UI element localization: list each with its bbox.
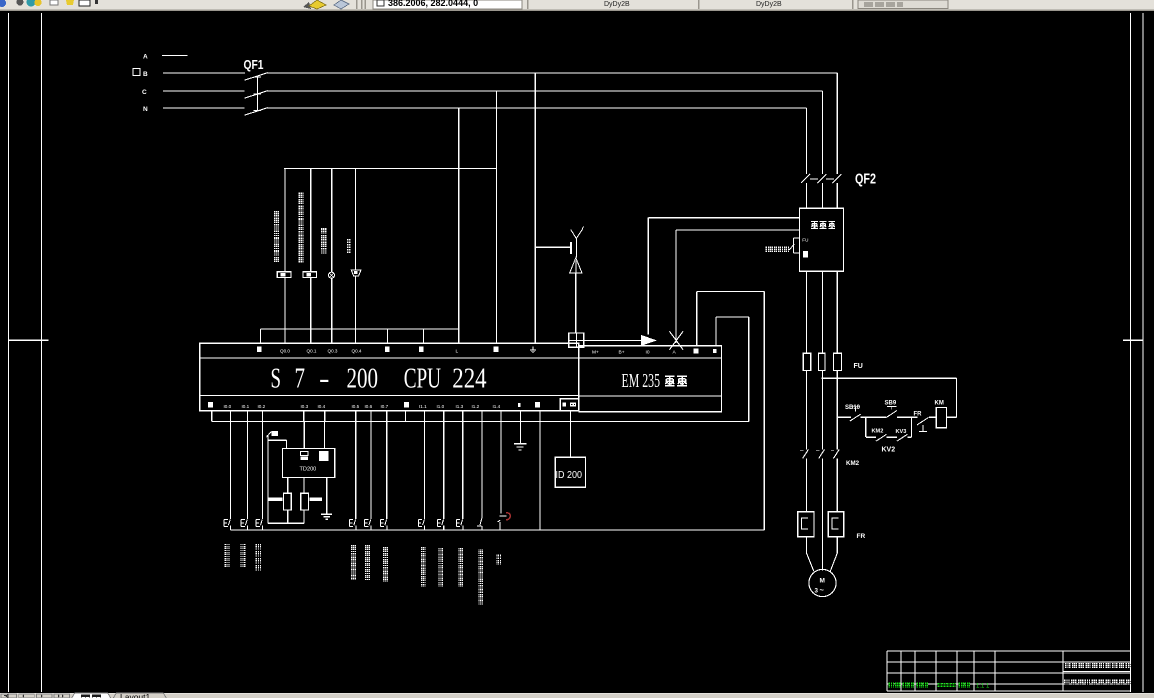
contactor KM2 pole <box>833 450 839 459</box>
wire terminal stub <box>370 411 372 422</box>
wire input 7 <box>424 421 426 519</box>
wire terminal stub <box>500 411 502 422</box>
wire output branch 4 <box>355 169 357 271</box>
switch contact 1 <box>223 519 225 526</box>
wire input 5 <box>370 421 372 519</box>
wire mid common bus <box>212 420 749 422</box>
label output 1 <box>274 211 280 217</box>
wire terminal stub <box>246 411 248 422</box>
thermal relay FR element2 <box>828 512 844 537</box>
ground symbol <box>514 443 527 445</box>
wire stub to PLC top <box>422 329 424 343</box>
wire aux branch <box>865 417 867 437</box>
svg-text:I0.4: I0.4 <box>318 404 326 409</box>
svg-text:ID 200: ID 200 <box>556 469 583 481</box>
svg-text:SB10: SB10 <box>845 405 861 411</box>
svg-text:I0.1: I0.1 <box>242 404 250 409</box>
inverter label <box>811 222 818 229</box>
label input 6 <box>383 547 388 552</box>
sheet frame left outer border <box>8 13 10 692</box>
thermal relay FR element1 <box>798 512 814 537</box>
svg-text:Q0.1: Q0.1 <box>307 349 317 354</box>
indicator lamp symbol <box>329 272 335 278</box>
wire input 3 <box>262 421 264 519</box>
svg-text:I1.1: I1.1 <box>419 404 427 409</box>
wire pole3 down <box>836 458 838 511</box>
switch contact 8 <box>436 519 438 526</box>
svg-text:Q0.0: Q0.0 <box>280 349 290 354</box>
motor M circle <box>809 569 836 596</box>
breaker QF1 pole N <box>245 108 268 116</box>
wire bottom common bus <box>230 529 764 531</box>
switch contact 3 <box>255 519 257 526</box>
PLC top terminal labels <box>257 347 262 352</box>
wire terminal stub <box>481 411 483 422</box>
svg-text:I0.6: I0.6 <box>365 404 373 409</box>
sheet frame right inner border <box>1130 13 1132 692</box>
wire terminal stub <box>462 411 464 422</box>
resistor R2 <box>301 493 309 510</box>
wire phase A <box>162 55 188 57</box>
wire to TD ground <box>326 478 328 514</box>
svg-text:1:1 1: 1:1 1 <box>976 684 990 690</box>
PLC expansion port box <box>560 399 579 411</box>
wire pole2 down <box>822 458 824 570</box>
wire resistor branch 2 <box>303 478 305 494</box>
wire stub to PLC top <box>331 329 333 343</box>
svg-text:I1.4: I1.4 <box>493 404 501 409</box>
svg-text:200: 200 <box>347 364 379 395</box>
breaker QF2 strokes <box>801 174 810 183</box>
wire stub to PLC top <box>458 329 460 343</box>
wire terminal stub <box>262 411 264 422</box>
svg-text:I0.5: I0.5 <box>352 404 360 409</box>
wire stub to PLC top <box>355 329 357 343</box>
wire terminal stub <box>229 411 231 422</box>
relay coil symbol 2 <box>303 272 317 278</box>
sheet frame right outer border <box>1142 13 1144 692</box>
wire input 4 <box>355 421 357 519</box>
svg-text:FR: FR <box>914 412 923 418</box>
TD200 box <box>283 448 335 477</box>
wire QF2 pole1 <box>806 108 808 174</box>
contactor KM2 pole <box>819 450 825 459</box>
wire terminal stub <box>303 411 305 422</box>
svg-text:A: A <box>143 54 148 61</box>
wire B drop <box>534 73 536 343</box>
label input 7 <box>421 547 426 552</box>
svg-text:KV2: KV2 <box>882 447 896 454</box>
thermal contact FR <box>917 418 929 425</box>
label input 5 <box>365 545 370 550</box>
relay coil symbol 1 <box>277 272 291 278</box>
contactor KM2 pole <box>803 450 809 459</box>
svg-text:S: S <box>271 364 282 395</box>
wire input 12 <box>539 421 541 530</box>
svg-text:M+: M+ <box>592 350 599 356</box>
svg-text:7: 7 <box>295 364 306 395</box>
switch contact 4 <box>349 519 351 526</box>
svg-text:386.2006, 282.0444, 0: 386.2006, 282.0444, 0 <box>388 0 478 8</box>
right centerline tick <box>1123 339 1143 341</box>
svg-text:I0.0: I0.0 <box>224 404 232 409</box>
wire input 10 <box>481 421 483 518</box>
wire control main <box>837 416 851 418</box>
svg-text:~: ~ <box>820 586 825 595</box>
annotation arrow <box>267 432 272 437</box>
wire motor lead 3 <box>836 537 838 553</box>
wire to TD panel <box>569 411 571 458</box>
wire EM hook inner <box>715 317 717 346</box>
wire sensor branch <box>535 246 570 248</box>
wire analog out 2 <box>675 230 677 343</box>
wire control top <box>822 377 957 379</box>
PLC bottom terminal labels <box>208 402 213 408</box>
tick to red marker <box>500 515 507 517</box>
wire phase N <box>163 107 245 109</box>
red D marker <box>506 513 510 520</box>
wire pole1 down <box>806 458 808 511</box>
label output 4 <box>347 239 352 244</box>
breaker QF1 pole C <box>245 91 268 99</box>
wire TD200 feed 1 <box>303 421 305 448</box>
svg-text:I0.2: I0.2 <box>258 404 266 409</box>
svg-text:FU: FU <box>802 237 808 242</box>
svg-text:CPU: CPU <box>404 364 441 395</box>
contactor coil KM <box>936 408 946 428</box>
switch contact 5 <box>364 519 366 526</box>
svg-text:DyDy2B: DyDy2B <box>756 1 782 8</box>
svg-text:C: C <box>142 89 147 96</box>
wire EM hook outer <box>696 291 698 346</box>
svg-text:I0: I0 <box>646 350 650 356</box>
wire stub to PLC top <box>387 329 389 343</box>
svg-text:M: M <box>820 578 825 585</box>
fuse FU pole3 <box>834 353 842 370</box>
title green labels <box>889 682 895 688</box>
title text drawing name <box>1064 679 1070 685</box>
sensor probe plate <box>570 242 572 254</box>
svg-text:Layout1: Layout1 <box>120 692 151 698</box>
title text school <box>1065 663 1071 669</box>
sheet frame left inner border <box>41 13 43 692</box>
resistor R1 <box>283 493 291 510</box>
svg-text:Q0.4: Q0.4 <box>352 349 362 354</box>
wire stub to PLC top <box>310 329 312 343</box>
pushbutton SB9 <box>887 406 896 408</box>
wire QF2 pole3 <box>836 73 838 174</box>
switch contact 7 <box>417 519 419 526</box>
breaker QF1 link bar <box>256 77 258 111</box>
title block grid <box>887 650 1131 652</box>
wire terminal stub <box>405 411 407 422</box>
toolbar <box>0 0 1154 12</box>
speed-set label <box>766 246 772 252</box>
label input 1 <box>224 544 229 549</box>
svg-text:I1.2: I1.2 <box>472 404 480 409</box>
wire QF2 pole2 <box>822 91 824 174</box>
layout tab bar <box>0 693 1154 698</box>
svg-text:3: 3 <box>815 588 819 595</box>
wire phase B <box>163 72 245 74</box>
wire TD200 left loop <box>267 437 269 524</box>
wire stub to PLC top <box>284 329 286 343</box>
wire output top bus <box>284 168 497 170</box>
buzzer symbol <box>351 270 361 276</box>
wire analog out 1 <box>647 218 649 335</box>
fuse FU pole2 <box>819 353 826 370</box>
svg-text:L: L <box>456 349 459 355</box>
label output 2 <box>298 192 304 198</box>
wire C drop <box>496 91 498 343</box>
wire output branch 3 <box>331 169 333 273</box>
svg-text:I1.3: I1.3 <box>456 404 464 409</box>
label input 8 <box>438 548 443 553</box>
svg-text:FU: FU <box>854 363 863 370</box>
svg-text:B: B <box>143 71 148 78</box>
wire stub to PLC top <box>260 329 262 343</box>
amplifier triangle <box>570 258 583 273</box>
wire terminal stub <box>539 411 541 422</box>
svg-text:KM: KM <box>935 401 944 407</box>
svg-text:224: 224 <box>452 364 486 395</box>
wire resistor branch 1 <box>287 478 289 494</box>
svg-text:Q0.3: Q0.3 <box>328 349 338 354</box>
svg-text:EM 235: EM 235 <box>622 371 661 392</box>
TD ground symbol <box>321 513 332 515</box>
PLC ground terminal glyph <box>532 347 534 350</box>
wire input 9 <box>462 421 464 519</box>
PLC S7-200 CPU224 box <box>200 343 579 410</box>
label input 4 <box>351 545 356 550</box>
wire input 11 <box>500 421 502 513</box>
svg-text:I0.3: I0.3 <box>301 404 309 409</box>
wire probe to terminal <box>575 273 577 333</box>
switch contact 9 <box>456 519 458 526</box>
svg-text:QF2: QF2 <box>855 172 876 188</box>
wire N drop <box>458 108 460 329</box>
marker square near B <box>133 69 140 76</box>
wire into inverter <box>806 183 808 208</box>
switch contact 6 <box>380 519 382 526</box>
sensor probe <box>575 238 577 258</box>
wire collector bus <box>261 328 459 330</box>
wire TD bottom link <box>268 522 304 524</box>
wire terminal stub <box>324 411 326 422</box>
wire phase C <box>163 90 245 92</box>
wire input 8 <box>443 421 445 519</box>
left centerline tick <box>9 339 49 341</box>
svg-text:DyDy2B: DyDy2B <box>604 1 630 8</box>
switch contact 10 <box>480 519 482 526</box>
breaker QF1 pole B <box>245 73 268 81</box>
svg-text:TD200: TD200 <box>300 467 317 473</box>
label input 10 <box>478 549 483 554</box>
switch contact 11 <box>498 520 501 522</box>
label output 3 <box>321 228 327 234</box>
svg-text:SB9: SB9 <box>885 401 897 407</box>
wire motor lead 1 <box>806 537 808 553</box>
svg-text:I0.7: I0.7 <box>381 404 389 409</box>
svg-text:N: N <box>143 106 148 113</box>
svg-text:QF1: QF1 <box>244 57 264 72</box>
wire inverter outputs <box>806 271 808 353</box>
svg-text:I1.0: I1.0 <box>437 404 445 409</box>
label spare <box>496 554 501 559</box>
wire terminal stub <box>386 411 388 422</box>
wire input 2 <box>246 421 248 519</box>
wire TD200 feed 2 <box>323 411 325 449</box>
wire output branch 1 <box>284 169 286 272</box>
svg-text:B+: B+ <box>619 350 625 356</box>
inverter VFD box <box>800 208 844 271</box>
label input 2 <box>240 544 245 549</box>
wire output branch 2 <box>310 169 312 272</box>
EM235 module box <box>579 346 722 412</box>
label input 9 <box>458 548 463 553</box>
fuse FU pole1 <box>803 353 810 370</box>
wire terminal stub <box>424 411 426 422</box>
svg-text:FR: FR <box>857 533 866 540</box>
svg-text:KM2: KM2 <box>872 429 884 435</box>
wire terminal stub <box>443 411 445 422</box>
wire input 6 <box>386 421 388 519</box>
twisted pair X mark <box>670 331 684 349</box>
wire to SB9 <box>866 416 886 418</box>
TD 200 display unit <box>555 457 585 487</box>
svg-text:KV3: KV3 <box>896 429 907 435</box>
wire below fuses <box>806 370 808 449</box>
switch contact 2 <box>240 519 242 526</box>
svg-text:KM2: KM2 <box>846 460 860 467</box>
terminal block squares <box>569 333 584 347</box>
wire input 1 <box>229 421 231 519</box>
signal arrow line <box>584 339 642 341</box>
pushbutton SB10 <box>851 406 861 408</box>
wire terminal stub <box>355 411 357 422</box>
svg-text:-: - <box>319 364 330 395</box>
inverter left jumper <box>794 237 800 239</box>
wire terminal stub <box>211 411 213 422</box>
thick link bar 1 <box>268 497 282 501</box>
label input 3 <box>255 544 261 550</box>
wire terminal stub <box>519 411 521 422</box>
thick link bar 2 <box>309 497 322 501</box>
wire to ground <box>519 421 521 443</box>
